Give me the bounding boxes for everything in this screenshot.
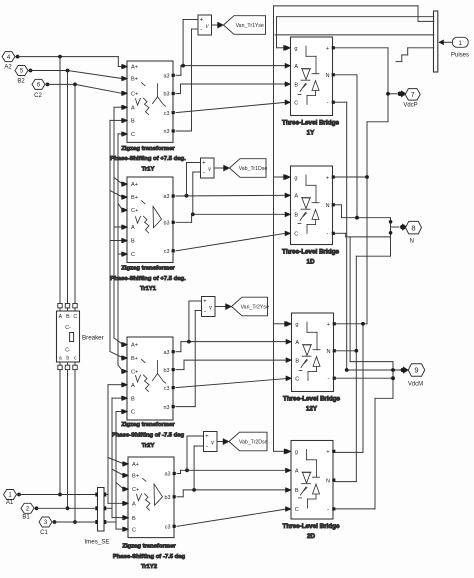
node Tr1Y1 input 184	[122, 182, 127, 186]
svg-text:B: B	[294, 82, 298, 88]
svg-text:-: -	[204, 308, 206, 315]
wire plus net: bridge1Y + to VdcP and down	[335, 48, 397, 453]
wire v3 minus riser from n3	[176, 311, 201, 407]
svg-text:g: g	[294, 46, 297, 52]
svg-text:-: -	[203, 169, 205, 176]
node Tr2Y upper input 371.3	[122, 369, 127, 373]
svg-text:c3: c3	[164, 386, 170, 392]
svg-text:A+: A+	[131, 65, 138, 71]
three-level bridge 1Y block	[285, 37, 335, 116]
node phase B junction	[66, 69, 70, 73]
wire bus B down to breaker	[67, 71, 69, 304]
node Tr2Y lower input 411.5	[122, 409, 127, 413]
svg-text:2D: 2D	[307, 533, 316, 540]
input port 1 (A1)	[4, 490, 21, 507]
node a3/v2 junction	[185, 194, 189, 198]
svg-text:C: C	[73, 314, 77, 320]
svg-text:Vab_Tr2Dse: Vab_Tr2Dse	[239, 440, 268, 446]
svg-text:b3: b3	[164, 221, 170, 227]
svg-text:1Y: 1Y	[307, 130, 316, 137]
node Tr1Y lower input 120.4	[122, 118, 127, 122]
wire riser phase B	[110, 120, 123, 358]
svg-text:C+: C+	[131, 208, 138, 214]
zigzag transformer Tr1Y block	[123, 61, 175, 142]
wire gate pulses 2Y	[275, 35, 434, 327]
wire riser phase A (Tr1Y A to Tr1D, Tr2Y)	[114, 107, 123, 344]
svg-text:B: B	[131, 396, 135, 402]
node N net junctions	[354, 216, 392, 353]
svg-text:VdcP: VdcP	[403, 103, 417, 109]
svg-text:+: +	[203, 299, 207, 305]
svg-text:B+: B+	[132, 474, 139, 480]
svg-text:Three-Level Bridge: Three-Level Bridge	[282, 119, 340, 126]
wire Tr2Y a3 to bridge 2Y A	[176, 339, 291, 351]
svg-text:7: 7	[411, 92, 415, 99]
svg-text:Phase-Shifting of +7.5 deg.: Phase-Shifting of +7.5 deg.	[110, 276, 186, 282]
svg-text:c3: c3	[165, 525, 171, 531]
wire v1 minus riser from n3	[176, 29, 198, 131]
svg-text:Tr1Y1: Tr1Y1	[140, 286, 157, 292]
node phase A junction	[58, 55, 62, 59]
voltage measurement block v1	[198, 15, 212, 35]
three-level bridge 2D block	[286, 441, 336, 520]
label Tr1Y2	[113, 544, 186, 571]
wire riser bus1 phase C	[106, 412, 123, 530]
goto tag goto1 (Van_Tr1Yse)	[224, 16, 266, 35]
svg-text:Zigzag transformer: Zigzag transformer	[122, 544, 176, 550]
svg-text:a3: a3	[164, 194, 170, 200]
wire phase C2 to Tr1Y C+ (diagonal)	[48, 84, 127, 95]
svg-text:a: a	[59, 355, 62, 361]
wire port2 to Imes_SE	[37, 507, 96, 509]
node Tr1Y2 input 503.3	[123, 501, 128, 505]
voltage measurement block v4	[204, 432, 218, 452]
wire Tr2Y b3 to bridge 2Y B	[176, 358, 291, 370]
label Tr2Y	[112, 422, 185, 449]
svg-text:Three-Level Bridge: Three-Level Bridge	[283, 395, 341, 402]
svg-text:Zigzag transformer: Zigzag transformer	[121, 266, 175, 272]
svg-text:C: C	[295, 377, 299, 383]
svg-text:N: N	[326, 349, 330, 355]
svg-text:a3: a3	[165, 472, 171, 478]
svg-text:VdcM: VdcM	[408, 382, 423, 388]
wire v3 plus riser	[189, 301, 201, 342]
node b3/v2 junction	[191, 212, 195, 216]
svg-text:9: 9	[414, 366, 418, 375]
three-phase current measurement Imes_SE	[95, 488, 106, 532]
node Tr1Y1 input 227	[122, 225, 127, 229]
node Tr1Y2 input 529.1	[123, 527, 128, 531]
svg-text:Tr1Y: Tr1Y	[142, 166, 155, 172]
svg-text:B1: B1	[22, 515, 30, 521]
wire bus B breaker to bus1	[67, 370, 69, 509]
input port 6 (C2)	[32, 79, 49, 99]
label Tr1Y1	[110, 266, 186, 293]
svg-text:g: g	[295, 450, 298, 456]
node Tr2Y lower input 398.1	[122, 396, 127, 400]
zigzag transformer Tr1Y2 block	[124, 457, 176, 538]
svg-text:a3: a3	[164, 74, 170, 80]
svg-text:c: c	[74, 355, 77, 361]
svg-text:Three-Level Bridge: Three-Level Bridge	[282, 523, 340, 530]
svg-text:-: -	[327, 506, 329, 513]
node Tr1Y1 input 240.5	[122, 238, 127, 242]
svg-text:b3: b3	[165, 495, 171, 501]
node a3/v1 junction	[181, 64, 185, 68]
svg-text:B+: B+	[131, 356, 138, 362]
node Tr1Y1 input 197	[122, 195, 127, 199]
wire phase B2 to Tr1Y B+ (diagonal)	[31, 71, 127, 81]
node Tr2Y lower input 384.7	[122, 383, 127, 387]
svg-text:A: A	[131, 383, 135, 389]
svg-text:Breaker: Breaker	[82, 335, 104, 342]
wire v2 output	[214, 165, 230, 171]
node bus1 C junction	[73, 520, 77, 524]
node plus net VdcP junction	[386, 92, 390, 96]
svg-text:Tr2Y: Tr2Y	[142, 443, 155, 449]
wire port3 to Imes_SE	[55, 521, 96, 523]
wire phase A2 horizontal to Tr1Y A+	[19, 57, 127, 69]
three-level bridge 12Y block	[286, 313, 336, 392]
svg-text:Pulses: Pulses	[451, 53, 469, 59]
label of bridge 12Y	[283, 395, 341, 412]
svg-text:N: N	[326, 479, 330, 485]
svg-text:B: B	[295, 488, 299, 494]
wire bus A down to breaker	[59, 57, 61, 304]
label of bridge 1Y	[282, 119, 340, 136]
wire bus C breaker to bus1	[74, 370, 76, 523]
svg-text:C+: C+	[131, 91, 138, 97]
breaker block	[57, 304, 80, 370]
output port 7 (VdcP)	[398, 89, 421, 109]
wire port1 to Imes_SE	[19, 494, 95, 496]
svg-text:B: B	[294, 213, 298, 219]
svg-text:Phase-Shifting of -7.5 deg: Phase-Shifting of -7.5 deg	[113, 554, 186, 560]
wire N net: bridge1Y N down through all bridges to port N	[335, 75, 400, 482]
wire minus net: bridges - to VdcM	[335, 102, 401, 509]
wire bus C down to breaker	[74, 84, 76, 303]
svg-text:n3: n3	[164, 129, 170, 135]
svg-text:-: -	[326, 231, 328, 238]
svg-text:b3: b3	[164, 92, 170, 98]
wire Tr1Y2 c3 to bridge 2D C (diagonal)	[177, 507, 291, 527]
wire v4 minus riser	[194, 446, 203, 490]
node Tr1Y lower input 107.2	[122, 105, 127, 109]
wire riser phase C	[118, 134, 123, 371]
input port 5 (B2)	[15, 66, 32, 85]
svg-text:Three-Level Bridge: Three-Level Bridge	[282, 248, 340, 255]
wire gate pulses 1Y	[277, 17, 434, 51]
svg-text:C2: C2	[34, 93, 42, 99]
svg-text:+: +	[200, 18, 204, 24]
svg-text:+: +	[205, 434, 209, 440]
wire Tr1Y1 c3 to bridge 1D C (diagonal)	[176, 231, 290, 251]
svg-text:b: b	[66, 355, 69, 361]
svg-text:C: C	[294, 101, 298, 107]
svg-text:B+: B+	[131, 77, 138, 83]
svg-text:Phase-Shifting of -7.5 deg: Phase-Shifting of -7.5 deg	[112, 433, 185, 439]
svg-text:A: A	[294, 194, 298, 200]
svg-text:Phase-Shifting of +7.5 deg.: Phase-Shifting of +7.5 deg.	[110, 156, 186, 162]
wire Tr1Y1 b3 to bridge 1D B	[176, 212, 290, 222]
svg-text:12Y: 12Y	[306, 406, 318, 413]
output port 8 (N)	[400, 221, 422, 244]
svg-text:Van_Tr1Yse: Van_Tr1Yse	[236, 23, 264, 29]
svg-text:g: g	[294, 175, 297, 181]
svg-text:1D: 1D	[306, 259, 315, 266]
svg-text:A: A	[295, 340, 299, 346]
wire Tr1Y2 a3 to bridge 2D A	[177, 468, 291, 473]
label of bridge 1D	[282, 248, 340, 265]
wire gate pulses 1D (long gate bus)	[274, 6, 434, 451]
svg-text:A+: A+	[131, 182, 138, 188]
node Tr1Y lower input 133.9	[122, 132, 127, 136]
svg-text:c3: c3	[164, 111, 170, 117]
svg-text:N: N	[325, 203, 329, 209]
svg-text:C: C	[131, 410, 135, 416]
svg-text:A: A	[294, 64, 298, 70]
wire v2 minus riser	[193, 172, 200, 214]
svg-text:Van_Tr2Yse: Van_Tr2Yse	[241, 305, 269, 311]
svg-text:A+: A+	[131, 343, 138, 349]
three-level bridge 1D block	[285, 166, 335, 245]
wire Tr2Y c3 to bridge 2Y C (diagonal)	[176, 376, 291, 388]
node phase C junction	[73, 83, 77, 87]
node minus net junctions	[345, 368, 395, 380]
goto tag goto2 (Vab_Tr1Dse)	[230, 159, 268, 178]
svg-text:B+: B+	[131, 195, 138, 201]
svg-text:B: B	[66, 314, 70, 320]
demux for gate pulses	[434, 11, 438, 72]
svg-text:B: B	[295, 358, 299, 364]
input port 4 (A2)	[2, 52, 19, 71]
svg-text:A: A	[295, 469, 299, 475]
wire Pulses to demux	[438, 40, 452, 46]
goto tag goto3 (Van_Tr2Yse)	[232, 297, 269, 316]
wire riser bus1 phase B	[106, 398, 123, 517]
wire v2 plus riser	[187, 163, 201, 196]
wire gate pulses 2D	[274, 48, 434, 454]
wire Tr1Y2 b3 to bridge 2D B	[177, 488, 291, 497]
svg-text:C: C	[132, 527, 136, 533]
svg-text:C: C	[131, 132, 135, 138]
wire Tr1Y b3 to bridge 1Y B	[176, 82, 290, 94]
voltage measurement block v2	[201, 158, 215, 178]
wire riser bus1 phase A (Imes to Tr2Y A / Tr2D)	[106, 385, 123, 504]
svg-text:N: N	[325, 73, 329, 79]
svg-text:b3: b3	[164, 368, 170, 374]
svg-text:Tr1Y2: Tr1Y2	[141, 564, 158, 570]
svg-text:C1: C1	[40, 530, 48, 536]
svg-text:-: -	[326, 99, 328, 106]
svg-text:Vab_Tr1Dse: Vab_Tr1Dse	[239, 166, 268, 172]
svg-text:N: N	[410, 239, 414, 245]
node b3/v4 junction	[192, 488, 196, 492]
node a3/v4 junction	[185, 468, 189, 472]
svg-text:C+: C+	[132, 487, 139, 493]
svg-text:C: C	[294, 232, 298, 238]
svg-text:B2: B2	[17, 79, 25, 85]
node Tr1Y2 input 517.6	[123, 515, 128, 519]
label Tr1Y	[110, 146, 186, 173]
node Tr1Y2 input 489	[123, 487, 128, 491]
svg-text:C-: C-	[65, 325, 71, 331]
svg-text:A2: A2	[4, 65, 12, 71]
svg-text:n3: n3	[164, 405, 170, 411]
svg-text:C: C	[131, 252, 135, 258]
label Imes_SE	[84, 539, 109, 546]
svg-text:A: A	[131, 105, 135, 111]
svg-text:A+: A+	[132, 462, 139, 468]
wire v1 plus riser	[183, 20, 197, 66]
input port Pulses	[451, 37, 469, 58]
svg-text:B: B	[132, 516, 136, 522]
svg-text:B: B	[131, 239, 135, 245]
node Tr1Y1 input 210	[122, 208, 127, 212]
node bus1 A junction	[58, 493, 62, 497]
svg-text:-: -	[327, 375, 329, 382]
svg-text:C-: C-	[65, 348, 71, 354]
wire v3 output	[215, 304, 232, 310]
svg-text:+: +	[202, 161, 206, 167]
svg-text:A: A	[131, 225, 135, 231]
goto tag goto4 (Vab_Tr2Dse)	[229, 432, 268, 451]
input port 3 (C1)	[39, 517, 56, 536]
output port 9 (VdcM)	[401, 364, 425, 388]
svg-text:Zigzag transformer: Zigzag transformer	[121, 422, 175, 428]
svg-text:8: 8	[411, 223, 415, 232]
svg-text:-: -	[200, 26, 202, 33]
wire bus A breaker to bus1	[59, 370, 61, 495]
svg-text:a3: a3	[164, 350, 170, 356]
svg-text:A1: A1	[6, 500, 14, 506]
svg-text:A: A	[59, 314, 63, 320]
svg-text:-: -	[206, 443, 208, 450]
label of bridge 2D	[282, 523, 340, 540]
svg-text:B: B	[131, 119, 135, 125]
zigzag transformer Tr2Y block	[123, 337, 175, 420]
wire v1 output	[212, 22, 224, 28]
svg-text:C: C	[295, 507, 299, 513]
node Tr2Y upper input 344.5	[122, 342, 127, 346]
node Tr1Y2 input 463.8	[123, 462, 128, 466]
node Tr1Y1 input 254	[122, 252, 127, 256]
svg-text:A: A	[132, 502, 136, 508]
zigzag transformer Tr1Y1 block	[123, 177, 175, 263]
wire Tr1Y1 a3 to bridge 1D A	[176, 193, 290, 197]
svg-text:g: g	[295, 322, 298, 328]
svg-text:c3: c3	[164, 249, 170, 255]
node plus net 1D tap	[365, 175, 369, 179]
node plus net 2Y tap	[361, 322, 365, 326]
wire Tr1Y a3 to bridge 1Y A	[176, 63, 290, 75]
svg-text:Zigzag transformer: Zigzag transformer	[121, 146, 175, 152]
svg-text:C+: C+	[131, 370, 138, 376]
wire v4 output	[217, 439, 229, 445]
node Tr1Y2 input 475.3	[123, 473, 128, 477]
label Breaker	[82, 335, 104, 342]
node bus1 B junction	[66, 506, 70, 510]
voltage measurement block v3	[202, 297, 216, 317]
node Tr2Y upper input 357.9	[122, 356, 127, 360]
svg-text:Imes_SE: Imes_SE	[84, 539, 109, 546]
wire v4 plus riser	[187, 436, 203, 470]
wire Tr1Y c3 to bridge 1Y C (diagonal)	[176, 100, 290, 113]
node a3/v3 junction	[187, 340, 191, 344]
input port 2 (B1)	[21, 503, 38, 520]
